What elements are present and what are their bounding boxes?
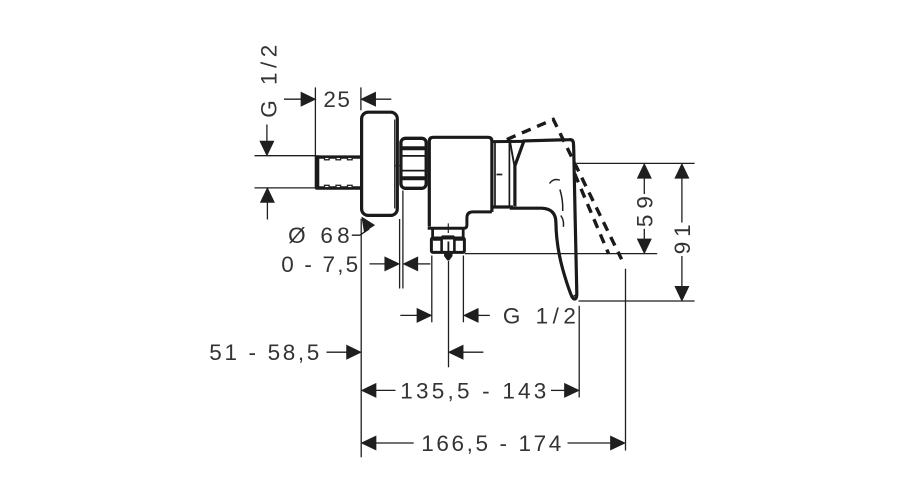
dim 51-58,5: right-pointing arrow bbox=[347, 346, 361, 359]
dim G1/2 pipe: bottom extension line bbox=[255, 187, 319, 189]
dim 0-7,5: right-pointing arrow bbox=[385, 257, 399, 270]
valve body block bbox=[429, 137, 492, 226]
escutcheon plate (Ø68) bbox=[362, 112, 398, 215]
dim G1/2 outlet: right extension line bbox=[462, 256, 464, 323]
dim 166,5-174: right arrow bbox=[611, 437, 625, 450]
handle tip extension line bbox=[578, 306, 580, 398]
dim G1/2 pipe: down arrow bbox=[260, 141, 273, 155]
handle inner contour a bbox=[550, 179, 560, 183]
cartridge ring bbox=[493, 141, 522, 206]
svg-text:166,5 - 174: 166,5 - 174 bbox=[421, 431, 561, 456]
Ø68 leader line bbox=[352, 229, 369, 235]
dim 166,5-174: right stem bbox=[568, 442, 612, 444]
dim 166,5-174: left stem bbox=[375, 442, 414, 444]
svg-text:0 - 7,5: 0 - 7,5 bbox=[281, 252, 358, 277]
svg-text:51 - 58,5: 51 - 58,5 bbox=[209, 340, 319, 365]
dim 59: lower stem bbox=[643, 229, 645, 240]
Ø68 leader arrow bbox=[362, 218, 374, 232]
outlet hose nut bbox=[431, 237, 464, 253]
outlet nozzle tip bbox=[445, 253, 452, 260]
dim 0-7,5: right stem bbox=[417, 263, 430, 265]
dim 0-7,5: left stem bbox=[370, 263, 387, 265]
dim G1/2 pipe: up arrow bbox=[261, 189, 274, 203]
mid reference line (raised tip) bbox=[465, 253, 658, 255]
ring index tick bbox=[497, 174, 503, 176]
dim 25: left-pointing arrow bbox=[362, 93, 376, 106]
raised grip dashed inner edge bbox=[575, 174, 609, 254]
dim 0-7,5: plate face extension line bbox=[399, 219, 401, 289]
dim 135,5-143: right stem bbox=[551, 389, 566, 391]
svg-text:135,5 - 143: 135,5 - 143 bbox=[400, 378, 546, 403]
dim 0-7,5: collar extension line bbox=[402, 191, 404, 289]
dim 59: down arrow bbox=[638, 239, 651, 253]
plate centre tick bbox=[394, 165, 402, 167]
plate lower extension line bbox=[360, 219, 362, 458]
dim 0-7,5: left-pointing arrow bbox=[404, 257, 418, 270]
handle inner contour b bbox=[560, 190, 563, 212]
handle inner contour c bbox=[561, 216, 564, 227]
dim 91: lower stem bbox=[681, 256, 683, 287]
outlet centreline dash above nut bbox=[447, 223, 449, 233]
wall extension line (left of 25 dim) bbox=[314, 87, 316, 155]
dim G1/2 pipe: upper stem bbox=[266, 125, 268, 144]
serrated collar nut bbox=[401, 138, 426, 188]
svg-text:25: 25 bbox=[323, 87, 350, 112]
dim 59: upper stem bbox=[643, 178, 645, 195]
dim 91: down arrow bbox=[675, 287, 688, 301]
outlet stub bbox=[433, 230, 464, 239]
dim G1/2 outlet: left extension line bbox=[431, 256, 433, 323]
top reference line (handle top) bbox=[577, 162, 695, 164]
handle lever and grip outline bbox=[492, 140, 577, 299]
dim 135,5-143: left arrow bbox=[362, 384, 376, 397]
handle front notch bbox=[510, 142, 515, 171]
bottom reference line (grip tip) bbox=[579, 300, 695, 302]
dim 91: up arrow bbox=[675, 164, 688, 178]
dim 51-58,5: left stem bbox=[327, 351, 349, 353]
dim 59: up arrow bbox=[638, 164, 651, 178]
dim G1/2 pipe: top extension line bbox=[255, 155, 317, 157]
raised handle extension line bbox=[625, 269, 627, 451]
dim G1/2 outlet: left-pointing arrow bbox=[464, 309, 478, 322]
handle tip inner line bbox=[570, 292, 575, 296]
dim 25: left stem bbox=[284, 98, 303, 100]
plate extension line above bbox=[360, 87, 362, 110]
svg-text:G 1/2: G 1/2 bbox=[256, 45, 281, 118]
dim G1/2 outlet: right-pointing arrow bbox=[417, 309, 431, 322]
dim G1/2 pipe: lower stem bbox=[266, 202, 268, 220]
dim G1/2 outlet: left stem bbox=[400, 314, 418, 316]
dim 166,5-174: left arrow bbox=[362, 437, 376, 450]
dim 135,5-143: left stem bbox=[375, 389, 396, 391]
dim 91: upper stem bbox=[681, 178, 683, 223]
dim 51-58,5: right stem bbox=[462, 351, 483, 353]
raised handle dashed outline bbox=[507, 119, 622, 259]
svg-text:G 1/2: G 1/2 bbox=[503, 303, 576, 328]
valve body bottom edge and step bbox=[428, 212, 492, 228]
dim 51-58,5: left-pointing arrow bbox=[449, 346, 463, 359]
dim 25: right stem bbox=[375, 98, 392, 100]
pipe nipple G1/2 body bbox=[316, 155, 361, 189]
dim 135,5-143: right arrow bbox=[565, 384, 579, 397]
dim 25: right-pointing arrow bbox=[301, 93, 315, 106]
outlet centreline extension bbox=[448, 261, 450, 368]
dim G1/2 outlet: right stem bbox=[477, 314, 490, 316]
